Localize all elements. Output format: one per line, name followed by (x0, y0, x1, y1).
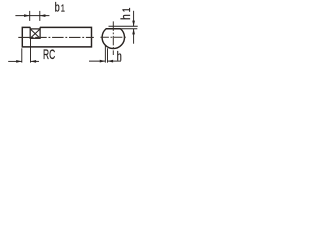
dimension h: dimension line with outside arrows (89, 60, 121, 63)
background (0, 0, 140, 69)
svg-text:b: b (55, 1, 60, 15)
wire: end-view horizontal centerline (dash-dot) (100, 36, 126, 38)
dimension h1: upper extension line (top tangent) (109, 25, 138, 27)
wire: end-view vertical centerline (dash-dot) (112, 21, 114, 55)
dimension RC: extension lines (21, 48, 23, 62)
wire: side-view centerline (dash-dot) (18, 36, 94, 38)
dimension h1: lower extension line (flat level) (121, 28, 137, 30)
dimension b1: extension lines (29, 11, 31, 21)
label b1 (55, 1, 65, 15)
marked zone box (crossed square) (30, 27, 40, 38)
svg-text:1: 1 (121, 7, 133, 12)
dimension b1: dimension line with arrows (15, 14, 49, 17)
end view: flat-top circle (102, 29, 124, 49)
label h1 (rotated) (118, 7, 133, 20)
dimension RC: dimension line with outside arrows (8, 60, 39, 63)
svg-text:RC: RC (43, 48, 55, 62)
svg-text:1: 1 (61, 2, 65, 13)
svg-text:h: h (118, 14, 133, 20)
dimension h1: vertical dimension line with outside arrows (132, 11, 135, 44)
side view pin outline (top edge broken over marked zone) (22, 27, 91, 47)
dimension h: extension lines (104, 46, 106, 63)
svg-text:h: h (117, 50, 122, 64)
